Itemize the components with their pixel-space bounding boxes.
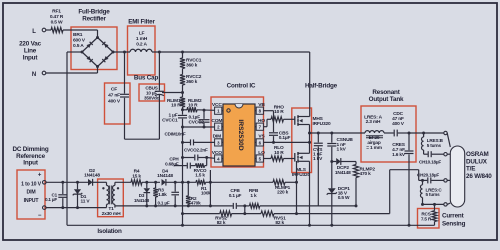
wire tank to lamp (409, 132, 444, 134)
capacitor CSNUB (331, 133, 333, 143)
red box full-bridge rectifier (71, 27, 117, 70)
svg-text:470k: 470k (191, 201, 201, 206)
svg-text:VCC: VCC (212, 102, 222, 108)
svg-text:airgap: airgap (367, 140, 381, 146)
svg-text:CF: CF (111, 87, 117, 93)
svg-text:Line: Line (24, 48, 37, 55)
svg-text:82 k: 82 k (217, 220, 226, 226)
inductor LRES:A (365, 131, 384, 133)
bridge rectifier BR1 (97, 30, 99, 38)
wire half-bridge output node (310, 132, 366, 134)
svg-text:Resonant: Resonant (372, 89, 400, 96)
svg-text:Control IC: Control IC (227, 83, 256, 90)
resistor RVS2 (220, 211, 232, 216)
red box half-bridge MOSFETs (292, 108, 312, 173)
capacitor CVCO (181, 156, 184, 159)
svg-text:BR1: BR1 (73, 32, 83, 38)
red box current sense RCS (418, 209, 440, 229)
capacitor CDC (384, 132, 394, 134)
wire CBUS to RVCC column (162, 92, 183, 94)
capacitor C1 (61, 181, 64, 184)
svg-text:82 k: 82 k (275, 220, 284, 226)
svg-text:0.1µF: 0.1µF (189, 114, 201, 120)
svg-text:5 turns: 5 turns (426, 192, 441, 197)
capacitor CPH (174, 165, 187, 167)
zener D1 (76, 181, 79, 184)
svg-text:L: L (32, 29, 36, 35)
svg-text:DIM: DIM (213, 134, 222, 140)
resistor R3 (154, 181, 157, 184)
svg-text:100k: 100k (201, 190, 211, 195)
svg-text:Sensing: Sensing (442, 221, 466, 228)
capacitor CFB (210, 205, 232, 207)
svg-text:LO: LO (258, 150, 265, 156)
resistor R2 (187, 181, 190, 184)
diode D2 (88, 179, 93, 186)
capacitor CDIM (181, 141, 184, 144)
svg-text:1 k: 1 k (250, 193, 257, 199)
wire MHS source to MLS drain (309, 125, 311, 154)
resistor R4 (131, 180, 142, 185)
lamp OSRAM DULUX tube (450, 146, 464, 207)
svg-text:2x30 mH: 2x30 mH (102, 211, 122, 217)
svg-text:OSRAM: OSRAM (466, 151, 489, 158)
red box EMI filter (128, 26, 156, 75)
svg-text:COM: COM (211, 118, 222, 124)
svg-text:Input: Input (23, 55, 39, 62)
resistor RLMP1 (273, 180, 285, 185)
wire bridge negative to ground rail (67, 51, 82, 53)
svg-text:10 R: 10 R (171, 102, 181, 108)
capacitor CH2 (431, 179, 443, 181)
red box bus cap CBUS (139, 84, 165, 101)
svg-text:N: N (32, 72, 36, 78)
svg-text:RF1: RF1 (52, 9, 61, 15)
capacitor CVS (317, 133, 319, 142)
svg-text:1N4148: 1N4148 (134, 198, 150, 203)
svg-text:220 k: 220 k (277, 190, 288, 195)
svg-text:220 Vac: 220 Vac (19, 41, 42, 48)
capacitor CRES (408, 132, 411, 135)
wire bus rail (152, 51, 310, 53)
wire bus to MHS drain (309, 52, 311, 117)
resistor RVCC2 (182, 69, 184, 75)
svg-text:1N4148: 1N4148 (84, 173, 100, 179)
svg-text:IRFU320: IRFU320 (313, 121, 331, 127)
svg-text:4.7 nF: 4.7 nF (392, 147, 405, 153)
svg-text:0.1 µF: 0.1 µF (45, 197, 57, 202)
diode D3 (145, 181, 148, 184)
svg-text:1N4148: 1N4148 (335, 170, 351, 176)
svg-text:2.3 mH: 2.3 mH (366, 119, 381, 125)
svg-text:Input: Input (23, 160, 39, 167)
svg-text:DULUX: DULUX (466, 158, 488, 165)
svg-text:0.47 R: 0.47 R (50, 14, 64, 20)
red box resonant output tank (361, 106, 416, 162)
IC pins with labels (215, 107, 222, 114)
wire secondary bottom rail (115, 205, 210, 207)
svg-text:1 kV: 1 kV (313, 156, 323, 162)
svg-text:CVCC1: CVCC1 (162, 118, 178, 124)
svg-text:1N4148: 1N4148 (157, 173, 173, 179)
wire lamp bottom (423, 203, 444, 205)
svg-text:Rectifier: Rectifier (82, 16, 106, 23)
svg-text:1 to 10 V: 1 to 10 V (21, 182, 41, 188)
svg-text:CH10.18µF: CH10.18µF (419, 160, 441, 165)
svg-text:0.1µF: 0.1µF (279, 135, 291, 141)
capacitor CF (123, 51, 126, 54)
svg-text:HO: HO (258, 118, 265, 124)
op-amp U1 control IC IRS2530D body (223, 104, 255, 166)
svg-text:CRES: CRES (392, 142, 406, 148)
capacitor CBUS (158, 51, 161, 54)
wire dim top rail (46, 181, 88, 183)
svg-text:5 turns: 5 turns (427, 143, 442, 148)
svg-text:1 µF: 1 µF (169, 112, 178, 118)
svg-text:VB: VB (258, 102, 265, 108)
svg-text:VS: VS (258, 134, 265, 140)
red box DIM input (17, 170, 45, 219)
terminal DIM- (43, 206, 47, 210)
svg-text:10 R: 10 R (188, 102, 198, 108)
resistor RLO (264, 158, 271, 160)
inductor LF (130, 49, 152, 52)
svg-text:360 k: 360 k (186, 79, 198, 85)
svg-text:= 1 mm: = 1 mm (366, 145, 382, 151)
svg-text:DIM: DIM (27, 190, 36, 196)
svg-text:EMI Filter: EMI Filter (128, 19, 155, 26)
svg-text:0.5 A: 0.5 A (73, 43, 84, 49)
red box CF (105, 83, 131, 124)
resistor RF1 (46, 29, 51, 31)
diode DCP2 (330, 160, 333, 163)
svg-text:T1: T1 (108, 206, 114, 212)
resistor RCS (433, 203, 436, 206)
svg-text:CDIM10nF: CDIM10nF (165, 131, 186, 136)
transistor MLS (294, 153, 296, 162)
inductor LRES:C (421, 179, 424, 182)
svg-text:T/E: T/E (466, 166, 475, 173)
wire MLS source to ground (309, 161, 311, 225)
svg-text:CVCC2: CVCC2 (189, 120, 205, 126)
wire dim bottom rail (46, 207, 106, 209)
svg-text:IRFU320: IRFU320 (292, 172, 310, 178)
red box control IC (211, 97, 264, 167)
svg-text:10 R: 10 R (274, 109, 284, 115)
svg-text:Output Tank: Output Tank (369, 96, 404, 103)
svg-text:400 V: 400 V (108, 99, 121, 105)
resistor RLMP2 (355, 162, 357, 165)
wire ground rail (67, 224, 435, 226)
capacitor C5 0.1uF (174, 181, 177, 184)
svg-text:0.2 A: 0.2 A (136, 41, 147, 47)
transformer T1 (106, 182, 108, 185)
zener DCP1 (331, 162, 333, 189)
svg-text:1.6 kV: 1.6 kV (392, 152, 406, 158)
red box transformer T1 (98, 179, 124, 217)
svg-text:0.1 µF: 0.1 µF (157, 200, 169, 205)
svg-text:Bus Cap: Bus Cap (134, 75, 159, 82)
svg-text:47 nF: 47 nF (108, 93, 120, 99)
wire lamp sense to RVS divider (418, 170, 420, 181)
capacitor CBS (264, 110, 274, 112)
wire VS sense to CVS (317, 205, 320, 207)
resistor RVCO (196, 163, 205, 168)
svg-text:0.5 W: 0.5 W (51, 19, 63, 25)
resistor RHO (264, 126, 267, 128)
svg-text:1.5 k: 1.5 k (195, 173, 205, 178)
wire VS line (264, 141, 310, 143)
diode D4 (162, 179, 166, 186)
svg-text:CDC: CDC (393, 111, 404, 117)
resistor RLIM1 (180, 97, 185, 107)
capacitor CVCC1 (182, 110, 184, 115)
svg-text:IRS2530D: IRS2530D (237, 119, 244, 150)
wire divider tap (244, 206, 246, 214)
svg-text:1 mH: 1 mH (136, 36, 148, 42)
svg-text:CVCO2.2nF: CVCO2.2nF (184, 148, 208, 153)
svg-text:360 k: 360 k (186, 63, 198, 69)
wire bridge positive to LF (113, 51, 130, 53)
resistor RLIM2 (182, 107, 184, 110)
transistor MHS (294, 116, 296, 125)
svg-text:47 nF: 47 nF (392, 116, 404, 122)
svg-text:0.68µF: 0.68µF (165, 161, 179, 166)
resistor RVCC1 (181, 51, 184, 54)
capacitor CH1 (424, 153, 428, 155)
resistor RVS1 (261, 211, 274, 216)
svg-text:EF20: EF20 (369, 135, 380, 141)
svg-text:7.5 R: 7.5 R (421, 216, 432, 221)
terminal DIM+ (43, 181, 47, 185)
svg-text:350Vdc: 350Vdc (144, 96, 160, 101)
svg-text:VCO: VCO (212, 150, 222, 156)
capacitor CVCC2 (203, 109, 206, 112)
svg-text:15 k: 15 k (132, 173, 141, 179)
svg-text:0.1 µF: 0.1 µF (229, 193, 242, 199)
wire VS sense line (209, 170, 211, 206)
wire DIM feedback rail (210, 181, 273, 183)
svg-text:470 k: 470 k (360, 171, 372, 177)
wire RVS rail (181, 212, 184, 215)
svg-text:Current: Current (442, 213, 465, 220)
wire phase column (181, 126, 184, 129)
svg-text:600 V: 600 V (73, 37, 86, 43)
svg-text:1.8k: 1.8k (158, 192, 167, 198)
svg-text:0.5 W: 0.5 W (338, 195, 350, 201)
wire secondary top rail (115, 181, 131, 183)
wire MLS gate feedback (296, 161, 298, 214)
svg-text:LF: LF (139, 31, 145, 37)
svg-text:10 R: 10 R (274, 150, 284, 156)
resistor R1 (196, 180, 206, 185)
resistor RFB (249, 204, 259, 209)
svg-text:26 W/840: 26 W/840 (466, 173, 492, 180)
svg-text:INPUT: INPUT (24, 198, 40, 204)
inductor LRES:B (423, 133, 425, 137)
svg-text:400 V: 400 V (392, 121, 405, 127)
svg-text:CH20.18µF: CH20.18µF (417, 173, 439, 178)
svg-text:11 V: 11 V (81, 199, 91, 205)
svg-text:1 kV: 1 kV (337, 147, 347, 153)
svg-text:Full-Bridge: Full-Bridge (78, 9, 110, 16)
svg-text:Isolation: Isolation (97, 228, 122, 235)
